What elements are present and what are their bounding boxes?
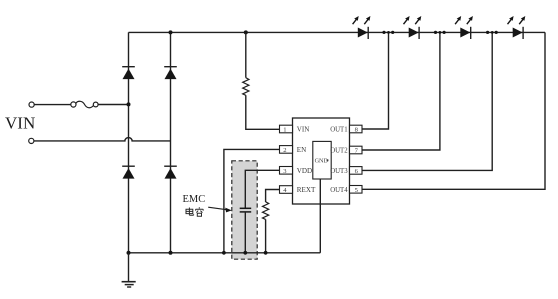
wire fuse to bridge bbox=[98, 104, 128, 106]
diode D1 bbox=[122, 67, 135, 79]
terminal lower VIN bbox=[29, 138, 34, 143]
node R2 ground bbox=[264, 251, 268, 255]
node cluster after LED D7 bbox=[486, 31, 498, 34]
wire lower VIN with hop over bus1 bbox=[34, 138, 171, 141]
pin 1 box bbox=[280, 125, 293, 133]
svg-text:OUT2: OUT2 bbox=[330, 148, 348, 155]
node capacitor ground bbox=[243, 251, 247, 255]
pin 4 box bbox=[280, 186, 293, 194]
pin 6 box bbox=[350, 167, 363, 175]
EMC capacitor dashed shaded box bbox=[232, 161, 257, 259]
annotation arrow to capacitor bbox=[208, 207, 232, 212]
svg-text:OUT4: OUT4 bbox=[330, 187, 348, 194]
label dianrong hand drawn bbox=[186, 207, 203, 216]
IC U1 body bbox=[293, 118, 350, 204]
terminal upper VIN bbox=[29, 102, 34, 107]
wire top rail bbox=[129, 31, 546, 33]
svg-text:GND: GND bbox=[315, 157, 329, 164]
svg-text:OUT1: OUT1 bbox=[330, 127, 347, 134]
LED D8 bbox=[507, 16, 525, 39]
wire OUT4 riser bbox=[362, 32, 545, 189]
ground bbox=[122, 253, 136, 287]
wire upper VIN to fuse bbox=[34, 104, 71, 106]
diode D3 bbox=[122, 166, 135, 178]
svg-text:1: 1 bbox=[283, 127, 286, 134]
wire vertical bus 2 bbox=[170, 32, 172, 252]
node cluster after LED D5 bbox=[382, 31, 394, 34]
pin 2 box bbox=[280, 146, 293, 154]
svg-text:OUT3: OUT3 bbox=[330, 168, 348, 175]
wire REXT pin4 to R2 bbox=[266, 190, 280, 203]
svg-text:VIN: VIN bbox=[5, 114, 35, 133]
node bus1 bottom bbox=[127, 251, 131, 255]
svg-text:EN: EN bbox=[297, 146, 306, 154]
wire R2 to ground rail bbox=[265, 219, 267, 252]
svg-text:REXT: REXT bbox=[297, 186, 316, 194]
node EN ground bbox=[222, 251, 226, 255]
svg-text:EMC: EMC bbox=[183, 194, 206, 205]
wire OUT1 riser bbox=[362, 32, 389, 129]
wire VDD pin3 to capacitor bbox=[245, 170, 279, 208]
pin 5 box bbox=[350, 186, 363, 194]
node R1 top junction bbox=[244, 30, 248, 34]
capacitor C1 EMC bbox=[240, 208, 252, 212]
wire bottom ground rail bbox=[129, 252, 321, 254]
wire left vertical bus 1 bbox=[128, 32, 130, 252]
wire rail to R1 bbox=[245, 32, 247, 77]
fuse F1 bbox=[71, 101, 98, 107]
svg-text:2: 2 bbox=[283, 147, 286, 154]
IC GND pad bbox=[313, 141, 331, 179]
wire EN pin2 to ground bbox=[224, 149, 280, 252]
label GND pad bbox=[315, 157, 329, 164]
wire capacitor to ground rail bbox=[244, 212, 246, 253]
wire OUT3 riser bbox=[362, 32, 492, 170]
node bus2 bottom bbox=[169, 251, 173, 255]
svg-text:VDD: VDD bbox=[297, 167, 312, 175]
LED D6 bbox=[404, 16, 422, 39]
LED D7 bbox=[455, 16, 473, 39]
pin 8 box bbox=[350, 125, 363, 133]
pin 7 box bbox=[350, 146, 363, 154]
diode D4 bbox=[164, 166, 177, 178]
wire OUT2 riser bbox=[362, 32, 440, 150]
wire GND pad to ground rail bbox=[319, 179, 321, 253]
node bus2 top bbox=[169, 30, 173, 34]
resistor R1 bbox=[243, 78, 249, 96]
resistor R2 bbox=[263, 202, 269, 220]
diode D2 bbox=[164, 67, 177, 79]
node cluster after LED D6 bbox=[434, 31, 446, 34]
node junction VIN top bbox=[127, 102, 131, 106]
LED D5 bbox=[353, 16, 371, 39]
svg-text:VIN: VIN bbox=[297, 126, 310, 134]
pin 3 box bbox=[280, 167, 293, 175]
wire R1 to pin1 bbox=[246, 95, 280, 129]
